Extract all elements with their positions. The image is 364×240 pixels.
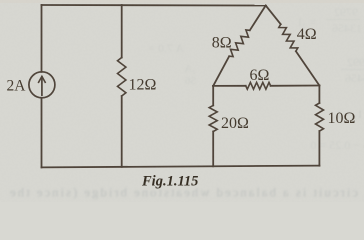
resistor R6 6ohm — [246, 82, 271, 89]
wire top horizontal — [42, 4, 266, 7]
bleed sentence bottom strip — [10, 185, 358, 200]
bleed = 0.7 A left-mid — [148, 41, 184, 55]
bleed fraction I2 top-right — [298, 5, 362, 35]
resistor R20 20ohm — [209, 105, 217, 131]
wire bridge horizontal left — [213, 85, 246, 87]
arrow of current source — [41, 77, 43, 95]
wire 20-ohm branch upper — [212, 86, 214, 106]
wire left vertical lower — [41, 98, 43, 168]
bleed fraction I3 mid-right — [341, 55, 364, 85]
wire 10-ohm branch upper — [318, 86, 320, 104]
resistor R10 10ohm — [316, 103, 324, 131]
wire left diagonal lower — [213, 56, 229, 86]
wire bottom horizontal — [42, 166, 320, 168]
wire left diagonal upper (to 8-ohm) — [250, 6, 266, 31]
resistor R8 8ohm — [229, 30, 250, 57]
bleed 0.75-0.25 bottom-right — [310, 138, 364, 152]
wire 20-ohm branch lower — [212, 132, 214, 167]
wire bridge horizontal right — [271, 85, 320, 87]
wire left vertical upper — [41, 5, 43, 72]
wire right diagonal upper (to 4-ohm) — [266, 6, 281, 25]
resistor R12 12ohm — [118, 58, 126, 97]
bleed-through text (mirrored, faint) — [10, 5, 364, 200]
wire 10-ohm branch lower — [318, 131, 320, 166]
bleed I2-I3 right — [333, 107, 362, 121]
wire 12-ohm branch lower — [121, 96, 123, 167]
wire right diagonal lower — [296, 51, 320, 85]
resistor R4 4ohm — [279, 24, 298, 51]
bleed fraction small center — [184, 63, 196, 87]
wire 12-ohm branch upper — [121, 5, 123, 58]
current source I1 2A — [29, 72, 55, 98]
